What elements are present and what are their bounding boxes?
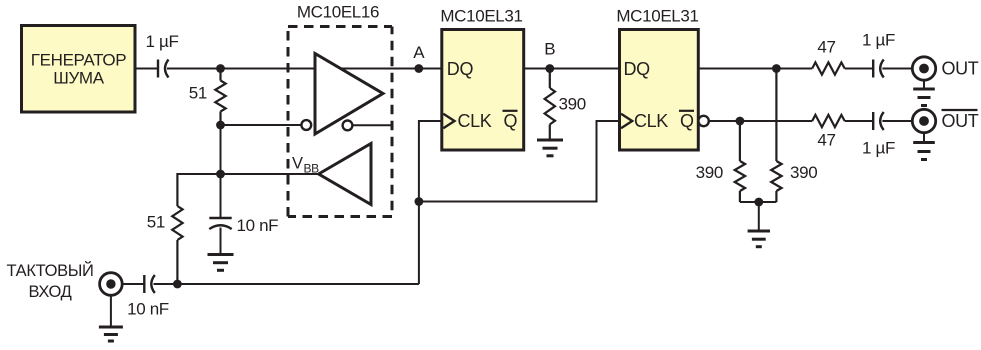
resistor R3 390 bbox=[545, 69, 555, 140]
dashed box MC10EL16 bbox=[288, 27, 392, 217]
svg-text:10 nF: 10 nF bbox=[127, 300, 169, 319]
wire EL16 output to DQ of U2 bbox=[341, 68, 442, 70]
ground below input connector bbox=[99, 295, 123, 341]
junction Q output / R8 bbox=[772, 64, 781, 73]
clock wire branch to U3 CLK bbox=[419, 121, 620, 202]
capacitor C4 10 nF bbox=[144, 275, 155, 293]
wire C4 to clock junction riser bbox=[154, 283, 419, 285]
svg-text:A: A bbox=[413, 43, 425, 62]
wire noise gen to C1 bbox=[135, 68, 158, 70]
junction node 3 (VBB node) bbox=[216, 170, 225, 179]
clock junction bbox=[415, 197, 424, 206]
wire R5 to C5 bbox=[845, 68, 874, 70]
clock wedge U3 bbox=[621, 114, 632, 128]
wire node 2 down to node 3 bbox=[220, 125, 222, 174]
wire C1 to node 1 bbox=[167, 68, 221, 70]
svg-text:ГЕНЕРАТОР: ГЕНЕРАТОР bbox=[31, 51, 126, 70]
svg-text:V: V bbox=[292, 155, 303, 173]
label ТАКТОВЫЙ ВХОД bbox=[7, 261, 94, 301]
svg-text:51: 51 bbox=[189, 84, 207, 103]
clock wedge U2 bbox=[443, 114, 454, 128]
svg-text:MC10EL16: MC10EL16 bbox=[297, 3, 379, 22]
coax connector OUTbar bbox=[912, 109, 935, 132]
wire U3 Qbar to OUTbar network bbox=[709, 120, 812, 122]
wire node 3 left to R2 bbox=[177, 173, 220, 175]
svg-text:390: 390 bbox=[559, 95, 586, 114]
wire node 2 to EL16 inverting input bbox=[221, 124, 302, 126]
svg-text:1 µF: 1 µF bbox=[862, 139, 895, 158]
svg-text:MC10EL31: MC10EL31 bbox=[440, 7, 522, 26]
coax connector clock input bbox=[100, 273, 123, 296]
svg-text:MC10EL31: MC10EL31 bbox=[616, 7, 698, 26]
svg-text:1 µF: 1 µF bbox=[862, 31, 895, 50]
ground below R7/R8 bbox=[748, 202, 770, 247]
VBB buffer triangle bbox=[319, 144, 371, 205]
junction clock input node bbox=[173, 280, 182, 289]
wire C6 to OUTbar connector bbox=[882, 120, 912, 122]
buffer U1 triangle (MC10EL16) bbox=[315, 54, 383, 135]
capacitor C1 bbox=[158, 60, 169, 78]
coax connector OUT bbox=[912, 57, 935, 80]
resistor R1 51 bbox=[215, 69, 225, 126]
svg-text:1 µF: 1 µF bbox=[146, 32, 179, 51]
svg-text:10 nF: 10 nF bbox=[237, 216, 279, 235]
capacitor C6 1 µF bbox=[873, 112, 884, 130]
capacitor C3 10 nF bbox=[209, 218, 231, 229]
noise generator box (ГЕНЕРАТОР ШУМА) bbox=[22, 26, 136, 113]
pin label Qbar (U3) bbox=[679, 111, 694, 131]
capacitor C5 1 µF bbox=[873, 60, 884, 78]
flip-flop U2 MC10EL31 bbox=[442, 30, 524, 151]
wire U2 Q output to DQ of U3 bbox=[524, 68, 620, 70]
svg-text:BB: BB bbox=[304, 162, 320, 176]
resistor R8 390 (from Q) bbox=[771, 69, 781, 203]
label OUTbar bbox=[942, 110, 979, 131]
ground below OUT connector bbox=[913, 80, 935, 105]
resistor R2 51 bbox=[172, 173, 182, 284]
svg-text:CLK: CLK bbox=[634, 111, 668, 131]
svg-text:DQ: DQ bbox=[624, 59, 651, 79]
svg-text:390: 390 bbox=[790, 163, 817, 182]
junction R7/R8 ground node bbox=[754, 198, 763, 207]
wire stub from inverting output bbox=[352, 124, 392, 126]
junction node 1 bbox=[216, 64, 225, 73]
svg-text:390: 390 bbox=[696, 163, 723, 182]
svg-text:OUT: OUT bbox=[942, 111, 979, 131]
wire joining R7 and R8 bottoms bbox=[740, 201, 777, 203]
svg-text:Q: Q bbox=[504, 111, 518, 131]
wire node 3 to VBB buffer bbox=[221, 173, 320, 175]
svg-text:51: 51 bbox=[147, 213, 165, 232]
svg-text:47: 47 bbox=[817, 131, 835, 150]
pin label Qbar (U2) bbox=[503, 111, 518, 131]
node B junction bbox=[545, 64, 554, 73]
wire R6 to C6 bbox=[845, 120, 874, 122]
junction Qbar / R7 bbox=[736, 117, 745, 126]
svg-text:ВХОД: ВХОД bbox=[29, 283, 72, 301]
bubble Qbar output U3 bbox=[698, 116, 708, 126]
resistor R5 47 bbox=[812, 62, 845, 74]
wire C5 to OUT connector bbox=[882, 68, 912, 70]
bubble inverting output U1 bbox=[343, 121, 353, 131]
svg-text:ШУМА: ШУМА bbox=[53, 69, 104, 88]
ground below R3 bbox=[537, 140, 563, 156]
wire C3 to ground bbox=[220, 228, 222, 255]
wire input connector to C4 bbox=[122, 283, 144, 285]
svg-text:OUT: OUT bbox=[942, 59, 979, 79]
node A junction bbox=[414, 64, 423, 73]
label VBB bbox=[292, 155, 319, 176]
wire U3 Q output to OUT network bbox=[698, 68, 812, 70]
svg-text:Q: Q bbox=[680, 111, 694, 131]
flip-flop U3 MC10EL31 bbox=[620, 30, 699, 151]
svg-text:B: B bbox=[544, 40, 555, 59]
svg-text:ТАКТОВЫЙ: ТАКТОВЫЙ bbox=[7, 261, 94, 280]
junction node 2 bbox=[216, 121, 225, 130]
resistor R7 390 (from Qbar) bbox=[735, 121, 745, 202]
clock wire U2 CLK to junction bbox=[419, 121, 442, 284]
bubble inverting input U1 bbox=[301, 120, 311, 130]
svg-text:CLK: CLK bbox=[458, 111, 492, 131]
ground below OUTbar connector bbox=[913, 133, 935, 160]
ground below C3 bbox=[208, 255, 234, 271]
svg-text:47: 47 bbox=[817, 38, 835, 57]
svg-text:DQ: DQ bbox=[447, 59, 474, 79]
resistor R6 47 bbox=[812, 115, 845, 127]
wire node 3 down to C3 bbox=[220, 174, 222, 218]
wire node 1 to EL16 input bbox=[221, 68, 316, 70]
